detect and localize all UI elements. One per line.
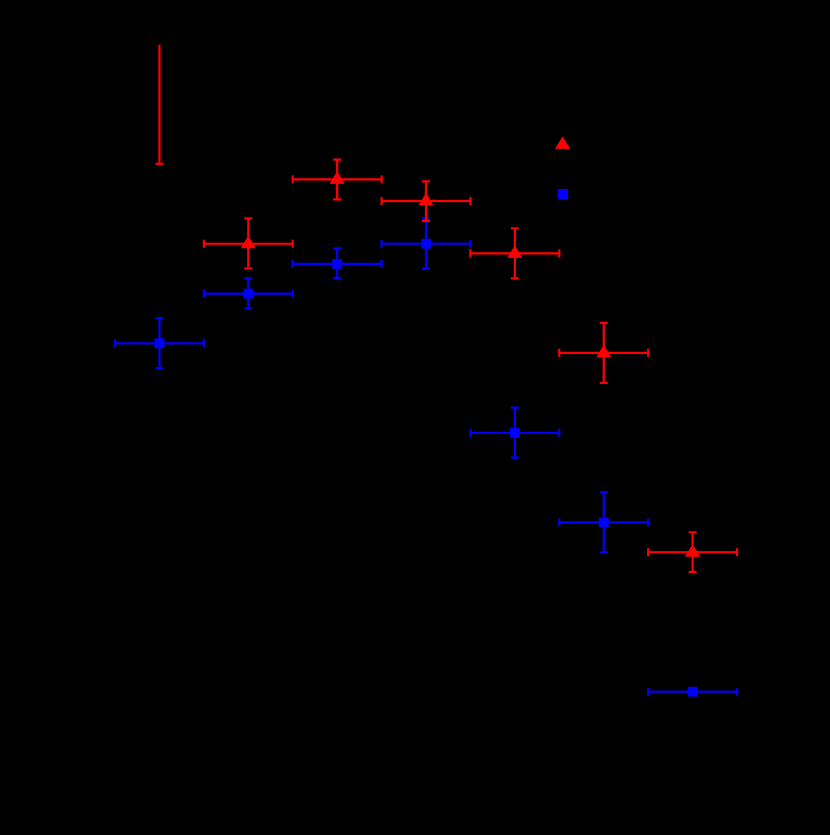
blue point B1 error bars — [115, 318, 204, 368]
red point R1 clipped lower error bar — [155, 45, 163, 164]
blue point B7 error bars — [648, 688, 737, 696]
blue point B2 error bars — [204, 278, 293, 308]
blue point B6 square marker — [599, 518, 609, 528]
red point R5 error bars — [470, 228, 559, 278]
blue point B3 square marker — [332, 259, 342, 269]
blue point B3 error bars — [293, 248, 382, 278]
red point R5 triangle marker — [507, 245, 522, 258]
blue point B5 square marker — [510, 428, 520, 438]
blue point B4 error bars — [382, 218, 471, 268]
red point R2 error bars — [204, 219, 293, 269]
red point R3 error bars — [293, 160, 382, 200]
red point R7 triangle marker — [685, 544, 700, 557]
blue point B6 error bars — [559, 492, 648, 552]
red point R4 error bars — [382, 181, 471, 221]
blue point B7 square marker — [688, 687, 698, 697]
red point R4 triangle marker — [418, 193, 433, 206]
legend red triangle marker — [555, 136, 570, 149]
blue point B5 error bars — [470, 408, 559, 458]
red point R2 triangle marker — [241, 236, 256, 249]
blue point B1 square marker — [155, 338, 165, 348]
blue point B4 square marker — [421, 239, 431, 249]
red point R3 triangle marker — [330, 171, 345, 184]
legend blue square marker — [558, 189, 568, 199]
blue point B2 square marker — [243, 289, 253, 299]
red point R6 error bars — [559, 323, 648, 383]
red point R6 triangle marker — [596, 345, 611, 358]
red point R7 error bars — [648, 532, 737, 572]
